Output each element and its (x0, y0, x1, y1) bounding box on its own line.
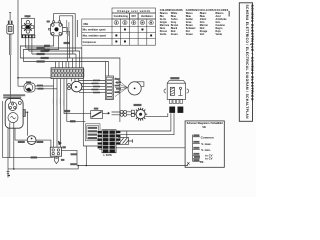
wire fan to connector 2 (82, 83, 106, 85)
wire label bundle (64, 42, 71, 44)
wire label v1c (115, 85, 120, 87)
wire drop to strip c (75, 54, 77, 68)
wire label v1b (116, 82, 121, 84)
wire long vertical from top (18, 0, 24, 86)
wire PE down (7, 128, 9, 177)
wire drop to connector g (108, 62, 110, 77)
wire to strip bottom (18, 77, 51, 79)
wire strip to cv housing (67, 79, 86, 122)
wire drop to strip b (79, 51, 81, 68)
wire S2 bottom 1 (20, 36, 53, 58)
svg-text:Verde: Verde (160, 33, 167, 36)
wire to timer motor (127, 112, 132, 115)
wire run grey (20, 58, 120, 122)
wire label cr2 (70, 163, 77, 165)
wire run black (32, 53, 76, 55)
wire strip to capacitor 1 (53, 79, 55, 148)
wire gear to timer (146, 113, 168, 116)
cv label 3 (88, 134, 98, 136)
wire run white (23, 61, 108, 63)
svg-text:Ventilation: Ventilation (141, 15, 153, 18)
junction dots (13, 77, 87, 170)
wire compressor bottom 2 (13, 122, 15, 169)
wire strip to fan 3 (78, 79, 80, 82)
wire drop to strip e (68, 62, 70, 68)
wire cv right to VE (116, 147, 185, 149)
bracket mark (229, 11, 230, 17)
cv label 1 (88, 127, 98, 129)
svg-text:V. max.: V. max. (201, 142, 211, 146)
wire S1 pin3 down (31, 38, 33, 54)
wire compressor bottom 1 (9, 122, 11, 157)
wire strip to capacitor 2 (56, 79, 58, 148)
wire label ol-left (18, 141, 25, 143)
arrow mark capacitor feed (58, 141, 62, 146)
wire label sd2 (38, 88, 44, 90)
wire capacitor right down (62, 150, 78, 165)
svg-text:Common: Common (201, 135, 214, 139)
wire strip to fan 2 (74, 79, 76, 82)
terminal board CV housing (85, 124, 100, 141)
wire label fm5 (93, 92, 100, 94)
wire mains conductor down (9, 55, 11, 102)
capacitor CP (50, 147, 61, 156)
svg-text:L N PE: L N PE (104, 153, 113, 157)
wire label fm4 (92, 89, 99, 91)
blower symbol (128, 82, 144, 95)
changeover table (82, 8, 156, 45)
svg-text:PE: PE (200, 160, 204, 164)
plug connector small (54, 156, 58, 163)
wire label 4 (41, 57, 49, 59)
wire bottom horizontal 1 (3, 157, 54, 159)
svg-text:SCHEMA ELETTRICO / ELECTRICAL: SCHEMA ELETTRICO / ELECTRICAL DIAGRAM / … (245, 5, 249, 120)
wire label v1e (115, 91, 120, 93)
wire thermostat left (64, 113, 91, 115)
svg-text:Change over switch: Change over switch (117, 9, 150, 13)
wire label v1d (116, 88, 121, 90)
label plug small (61, 159, 65, 161)
connector V1 (106, 76, 114, 100)
svg-text:to CV: to CV (205, 157, 212, 161)
wire fan to connector 1 (79, 80, 106, 82)
wire fan to connector 5 (79, 92, 106, 94)
svg-text:Conditioning: Conditioning (114, 15, 129, 18)
cv label 4 (88, 137, 98, 139)
wire cv to timer socket1 (116, 113, 171, 131)
vertical text SELETTORE (65, 20, 68, 34)
wire S1 pin2 down (28, 38, 30, 51)
cv label 2 (88, 130, 98, 132)
wire to connector pair (112, 112, 121, 115)
wire label BLU (44, 45, 50, 47)
wire S1 pin1 down (25, 38, 27, 48)
svg-text:Verde: Verde (216, 33, 223, 36)
wire label sd1 (37, 85, 43, 87)
wire S2 bottom 2 (23, 36, 58, 62)
rotary switch S1 (21, 15, 35, 38)
wire drop to strip d (71, 58, 73, 68)
wire overload left (15, 128, 27, 140)
svg-text:OFF: OFF (131, 16, 136, 18)
svg-text:USE: USE (83, 23, 88, 26)
terminal strip TS1 (51, 68, 84, 79)
wire label 2 (41, 50, 49, 52)
wire label nero (70, 120, 76, 122)
cv left stubs (99, 149, 102, 151)
timer motor gear (134, 104, 148, 121)
compressor label (3, 94, 25, 96)
wire label fm1 (93, 80, 100, 82)
wire sd right 1 (35, 85, 54, 87)
wire bottom horizontal 2 (8, 164, 188, 169)
wire label 3 (37, 53, 45, 55)
svg-text:SCHEMA ELECTRIQUE / SCHEMA ELE: SCHEMA ELECTRIQUE / SCHEMA ELECTRICO (250, 5, 254, 101)
wire run blue (29, 50, 80, 52)
fan motor FM (68, 81, 82, 92)
wire label cr1 (71, 153, 78, 155)
svg-text:Green: Green (171, 33, 178, 36)
wire strip to thermostat (63, 79, 65, 114)
selector switch S2 (47, 21, 63, 36)
wire S2 top loop 1 (54, 14, 76, 51)
wire cv left down (85, 146, 87, 166)
wire label bh1 (31, 156, 37, 158)
table dots (115, 29, 152, 43)
wire cv to timer socket2 (116, 113, 174, 135)
wire run brown (26, 47, 82, 49)
color legend group 1 (160, 9, 183, 36)
wire S2 right stub 2 (63, 31, 70, 58)
VE legend box (185, 121, 224, 167)
wire label th (64, 110, 70, 112)
arrow mark (108, 112, 110, 115)
wire strip to capacitor 3 (60, 79, 62, 148)
vertical wire labels (53, 98, 54, 104)
inline connector pair 1 (120, 110, 123, 113)
power plug P1 (7, 13, 14, 55)
svg-text:VE: VE (202, 125, 206, 129)
cable arrow to blower (115, 78, 127, 97)
svg-text:V. min.: V. min. (201, 148, 211, 152)
overload protector OL (27, 136, 36, 145)
svg-text:Compressor: Compressor (83, 42, 97, 44)
wire strip long down (83, 79, 102, 147)
wire heater up (126, 131, 128, 138)
svg-text:Gruen: Gruen (186, 33, 194, 36)
wire overload right (36, 140, 51, 147)
wire sd right 2 (35, 88, 57, 90)
wire label fm2 (92, 83, 99, 85)
wire drop to strip a (81, 46, 83, 67)
wire label ol-right (37, 141, 44, 143)
timer unit TM (164, 77, 189, 113)
wire label 5 (37, 60, 45, 62)
wire label v1a (115, 78, 120, 80)
thermostat TH (91, 108, 103, 119)
wire label MAR (44, 49, 50, 51)
svg-text:Vert: Vert (200, 33, 205, 36)
wire thermostat right (103, 113, 108, 115)
svg-text:Max. ventilator speed: Max. ventilator speed (83, 34, 107, 37)
wire fan to connector 4 (82, 89, 106, 91)
inline connector pair 2 (120, 113, 123, 116)
wire S2 top loop 2 (60, 16, 73, 54)
timer motor squares (131, 110, 134, 113)
defrost heater (118, 138, 133, 145)
terminal board CV (98, 130, 121, 157)
title block vertical (239, 3, 254, 122)
compressor MC (5, 99, 25, 129)
wire strip to fan 1 (70, 79, 72, 82)
wire drop to connector f (105, 62, 107, 77)
wire left PE run (2, 101, 4, 158)
wire label 1 (37, 47, 45, 49)
wire comb drops (56, 62, 67, 68)
wire compressor to overload (25, 112, 27, 136)
table symbol circles (114, 20, 153, 24)
color legend group 2 (186, 9, 229, 36)
wire label fm3 (93, 86, 100, 88)
svg-text:Min. ventilator speed: Min. ventilator speed (83, 28, 106, 31)
wire S2 right stub 1 (63, 28, 68, 62)
wire fan to connector 3 (82, 86, 106, 88)
pe ticks (7, 171, 10, 175)
label cp (62, 146, 66, 148)
starting device SD (24, 81, 35, 92)
